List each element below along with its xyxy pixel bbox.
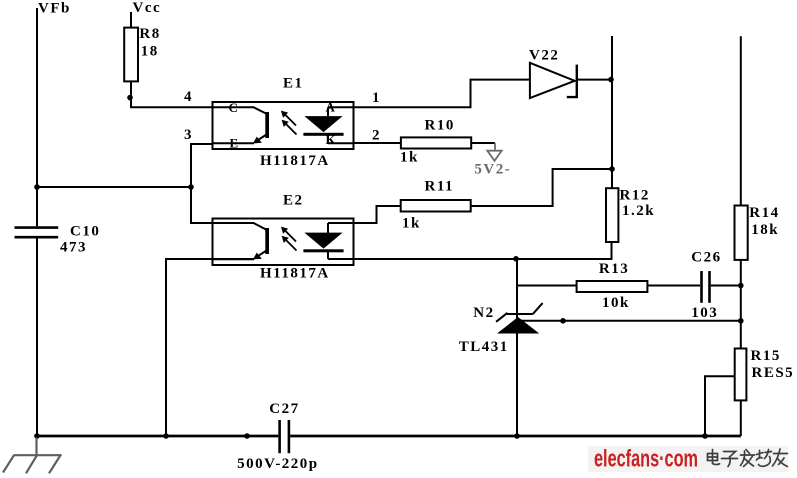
svg-text:E1: E1 — [283, 76, 304, 92]
svg-text:R11: R11 — [425, 178, 455, 194]
wire mid branch vertical x517 — [516, 259, 518, 436]
svg-text:1: 1 — [372, 90, 380, 106]
wire E1 pin3 down to E2 pin — [191, 144, 213, 223]
junction bottom E-drop — [163, 433, 169, 439]
svg-text:RES5: RES5 — [752, 365, 795, 381]
svg-text:VFb: VFb — [38, 1, 71, 17]
watermark elecfans.com — [588, 446, 788, 473]
optocoupler E1 box — [213, 102, 354, 149]
wire E2 anode to R11 — [354, 206, 401, 223]
svg-text:E2: E2 — [283, 192, 304, 208]
optocoupler E2 box — [213, 219, 354, 266]
wire bottom rail right — [290, 435, 741, 438]
wire R11 to node column — [471, 169, 612, 206]
svg-text:1k: 1k — [402, 216, 421, 232]
junction left rail mid — [34, 184, 40, 190]
wire R15 tap — [705, 376, 735, 436]
resistor R15 — [735, 349, 747, 401]
svg-text:R10: R10 — [425, 118, 455, 134]
svg-text:3: 3 — [184, 127, 192, 143]
capacitor C27 — [280, 420, 289, 453]
resistor R11 — [401, 200, 471, 212]
junction R8 lead — [127, 95, 133, 101]
E1 light arrow 1 — [281, 111, 296, 126]
wire TL431 ref to right rail — [520, 320, 741, 322]
wire right rail mid — [740, 260, 742, 349]
char shao — [759, 451, 761, 459]
E2 light arrow 1 — [281, 227, 296, 242]
svg-text:18k: 18k — [751, 222, 779, 238]
junction R11 node — [609, 166, 615, 172]
wire R8 bottom to E1 pin4 — [131, 81, 213, 107]
wire node column x612 — [611, 36, 613, 188]
svg-text:C10: C10 — [70, 224, 100, 240]
wire C26 to right rail — [711, 285, 741, 287]
svg-text:103: 103 — [691, 305, 718, 321]
resistor R12 — [606, 188, 618, 242]
svg-text:elecfans·com: elecfans·com — [594, 446, 698, 473]
E1 phototransistor — [213, 107, 270, 143]
svg-text:N2: N2 — [473, 305, 494, 321]
svg-text:4: 4 — [184, 89, 192, 105]
E1 light arrow 2 — [282, 120, 297, 135]
svg-text:TL431: TL431 — [459, 339, 509, 355]
svg-text:5V2-: 5V2- — [474, 161, 511, 177]
wire E1 pin1 to diode — [354, 80, 530, 108]
resistor R13 — [577, 281, 648, 292]
capacitor C10 — [15, 228, 59, 238]
watermark chinese 电子发烧友 — [708, 449, 788, 467]
E2 phototransistor — [213, 223, 270, 260]
wire E1 pin2 to R10 — [354, 142, 401, 144]
svg-text:10k: 10k — [602, 295, 630, 311]
wire right rail bottom — [740, 400, 742, 436]
wire bottom rail left — [37, 435, 278, 438]
junction diode node — [608, 77, 614, 83]
svg-text:2: 2 — [372, 127, 380, 143]
svg-text:H11817A: H11817A — [260, 153, 330, 169]
svg-text:R13: R13 — [599, 261, 629, 277]
junction bottom TL431 — [514, 433, 520, 439]
capacitor C26 — [702, 271, 710, 303]
svg-text:R12: R12 — [620, 188, 650, 204]
junction E-branch mid — [188, 184, 194, 190]
svg-text:H11817A: H11817A — [260, 266, 330, 282]
wire Vcc lead — [130, 12, 132, 28]
svg-text:R15: R15 — [751, 348, 781, 364]
wire E2 cathode line to R12 bottom — [328, 242, 612, 259]
svg-text:1k: 1k — [400, 149, 419, 165]
ground — [3, 438, 62, 474]
char fa — [741, 454, 755, 456]
wire right rail top — [740, 36, 742, 205]
junction E2 line branch — [513, 256, 519, 262]
svg-text:R14: R14 — [749, 205, 779, 221]
junction bottom rail left — [34, 433, 40, 439]
resistor R10 — [401, 137, 471, 148]
resistor R8 — [124, 28, 138, 82]
junction C26 rail — [738, 283, 744, 289]
junction ref rail — [738, 318, 744, 324]
svg-text:C27: C27 — [269, 401, 299, 417]
svg-text:Vcc: Vcc — [133, 0, 162, 16]
svg-text:473: 473 — [60, 239, 87, 255]
junction ref wire dot — [560, 318, 566, 324]
char dian — [708, 454, 718, 461]
E2 LED — [303, 223, 353, 259]
char zi — [724, 452, 736, 458]
wire left rail below C10 — [36, 239, 38, 437]
svg-text:18: 18 — [141, 43, 159, 59]
svg-text:500V-220p: 500V-220p — [237, 456, 319, 472]
svg-text:R8: R8 — [139, 26, 160, 42]
wire R13 branch — [517, 285, 577, 287]
wire R13 to C26 — [647, 285, 700, 287]
wire mid-left horizontal to rail — [37, 186, 191, 188]
shunt regulator N2 TL431 — [496, 303, 542, 333]
E1 LED — [303, 107, 353, 143]
junction bottom R15 tap — [702, 433, 708, 439]
diode V22 — [530, 63, 577, 98]
resistor R14 — [735, 206, 748, 260]
char you — [774, 453, 788, 455]
svg-text:C26: C26 — [691, 249, 721, 265]
junction bottom stray — [244, 433, 250, 439]
wire diode to node column — [577, 79, 612, 81]
svg-text:V22: V22 — [529, 48, 559, 64]
svg-text:1.2k: 1.2k — [622, 203, 655, 219]
power symbol 5V2- — [487, 143, 501, 161]
wire R10 to 5V2- — [471, 142, 495, 144]
wire E2 emitter to left drop — [166, 259, 254, 436]
wire left rail VFb vertical (upper) — [36, 8, 38, 226]
E2 light arrow 2 — [282, 236, 297, 251]
